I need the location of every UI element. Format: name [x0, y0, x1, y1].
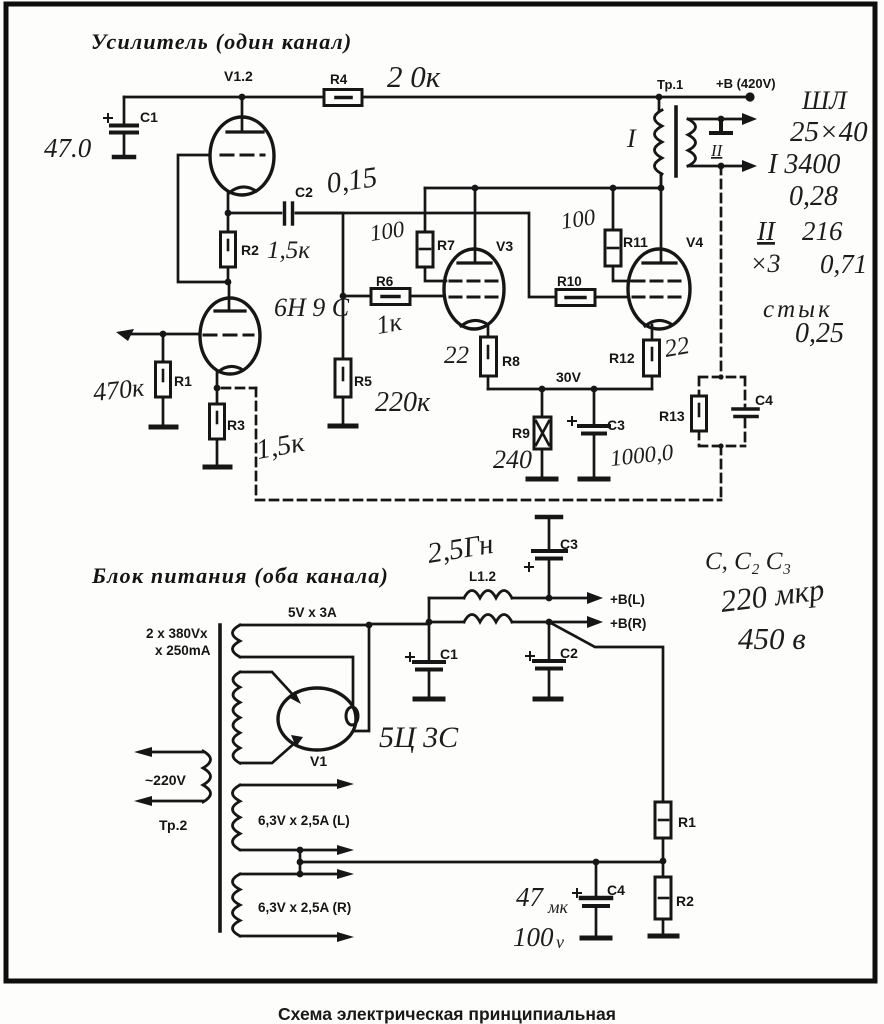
arrow secondary bottom — [742, 160, 757, 172]
ground secondary tap — [711, 119, 731, 133]
svg-text:6Н 9 С: 6Н 9 С — [274, 293, 350, 322]
svg-text:~220V: ~220V — [145, 772, 187, 788]
svg-text:I: I — [626, 124, 637, 153]
svg-text:47.0: 47.0 — [44, 133, 92, 163]
transformer Tp.1 — [626, 77, 696, 188]
tube V4 — [628, 174, 703, 329]
value 47mk 100v for C4 — [513, 882, 568, 952]
svg-text:+B(L): +B(L) — [610, 592, 645, 607]
winding 6.3V R — [233, 874, 352, 936]
resistor R1 — [156, 334, 193, 426]
node dashed top — [718, 374, 723, 379]
svg-text:2 0к: 2 0к — [387, 59, 441, 94]
capacitor C2 psu — [526, 622, 578, 697]
node heater tap top — [297, 847, 304, 854]
arrow 220V bottom — [134, 796, 152, 806]
wire secondary bottom — [688, 165, 744, 168]
node secondary top tap — [718, 116, 725, 123]
arrow +B(L) — [587, 592, 603, 604]
resistor R2 psu — [655, 861, 694, 935]
svg-text:I 3400: I 3400 — [767, 149, 840, 180]
wire secondary top — [688, 118, 744, 121]
svg-text:II 216: II 216 — [756, 216, 843, 246]
node heater tap lower — [297, 871, 304, 878]
capacitor C3 psu — [525, 517, 578, 598]
resistor R2 — [221, 213, 260, 282]
node V3 anode junction — [472, 185, 479, 192]
svg-text:1,5к: 1,5к — [267, 237, 310, 264]
anode arrow upper — [288, 691, 301, 704]
svg-text:R13: R13 — [659, 408, 685, 424]
resistor R7 — [417, 188, 455, 281]
arrow 220V top — [134, 747, 152, 757]
svg-text:R2: R2 — [241, 242, 259, 258]
dashed feedback from V1.1 cathode — [222, 387, 256, 390]
resistor R12 — [609, 325, 660, 389]
ground R9 — [528, 477, 556, 482]
arrow 6.3L top — [337, 779, 354, 789]
svg-text:II: II — [710, 141, 724, 160]
node dashed bottom — [718, 443, 723, 448]
tube V3 — [444, 188, 513, 329]
svg-text:470к: 470к — [92, 373, 147, 407]
node R1 junction — [160, 331, 167, 338]
ground R3 — [205, 465, 230, 470]
input wire with arrow — [128, 333, 200, 336]
svg-text:+B(R): +B(R) — [610, 616, 646, 631]
node transformer junction — [658, 185, 665, 192]
svg-text:Тр.1: Тр.1 — [657, 77, 683, 92]
ground R5 — [330, 424, 356, 429]
winding 5V — [233, 605, 370, 706]
capacitor C2 — [228, 184, 343, 224]
node C3 junction — [591, 386, 598, 393]
svg-text:R3: R3 — [227, 417, 245, 433]
svg-text:220к: 220к — [375, 387, 431, 418]
wire top B+ rail — [124, 96, 750, 99]
wire C2 to phase inverter — [296, 213, 556, 297]
svg-text:100: 100 — [559, 204, 597, 234]
wire filter riser — [428, 598, 431, 624]
svg-text:0,28: 0,28 — [789, 181, 838, 212]
resistor R9 trimmer — [512, 389, 551, 478]
svg-text:240: 240 — [493, 445, 532, 474]
arrow secondary top — [742, 113, 757, 125]
svg-text:V3: V3 — [496, 238, 513, 254]
wire bias reference — [300, 861, 663, 864]
svg-text:22: 22 — [444, 342, 469, 369]
svg-text:C3: C3 — [607, 417, 625, 433]
node +B terminal — [745, 92, 754, 101]
ground R2 psu — [650, 934, 677, 939]
capacitor C4 psu — [573, 862, 625, 936]
dashed wire from secondary — [720, 166, 723, 377]
wire V1.2 grid to R2 bottom — [178, 155, 226, 282]
svg-text:C1: C1 — [440, 646, 458, 662]
resistor R13 — [659, 396, 707, 431]
svg-text:30V: 30V — [556, 369, 582, 385]
svg-text:V4: V4 — [686, 234, 703, 250]
wire screen B+ rail — [425, 187, 661, 190]
svg-text:C4: C4 — [755, 392, 773, 408]
svg-text:5V x 3A: 5V x 3A — [288, 605, 337, 620]
svg-text:ШЛ: ШЛ — [801, 86, 848, 115]
svg-text:C2: C2 — [295, 184, 313, 200]
svg-text:C2: C2 — [560, 645, 578, 661]
wire filament to cathode node — [354, 625, 369, 731]
svg-text:R5: R5 — [354, 373, 372, 389]
svg-text:С, С₂ С₃: С, С₂ С₃ — [705, 548, 791, 575]
node divider junction — [660, 858, 667, 865]
choke L1.2 lower — [429, 615, 590, 623]
wire B+ main — [369, 623, 429, 626]
resistor R6 — [343, 274, 444, 305]
svg-text:C3: C3 — [560, 536, 578, 552]
resistor R8 — [481, 325, 521, 389]
svg-text:100: 100 — [368, 216, 406, 246]
svg-text:R11: R11 — [623, 234, 648, 250]
wire cathode 30V rail — [488, 388, 652, 391]
svg-text:2 x 380Vx: 2 x 380Vx — [146, 626, 208, 641]
svg-text:R1: R1 — [174, 373, 192, 389]
ground C3 — [580, 477, 608, 482]
svg-text:+B (420V): +B (420V) — [716, 76, 776, 91]
svg-text:V1.2: V1.2 — [224, 68, 253, 84]
ground C1 psu — [415, 697, 443, 702]
svg-text:C4: C4 — [607, 882, 625, 898]
svg-text:25×40: 25×40 — [790, 116, 868, 148]
ground R1 — [151, 425, 176, 430]
arrow 6.3R top — [337, 869, 354, 879]
svg-text:0,25: 0,25 — [795, 318, 844, 349]
svg-text:×3: ×3 — [750, 249, 781, 278]
winding HV 2x380V — [146, 626, 297, 763]
node heater tap mid — [297, 859, 304, 866]
wire V1.1 cathode — [216, 372, 219, 388]
node C4 junction — [593, 859, 600, 866]
ground C4 psu — [582, 936, 610, 941]
svg-text:0,71: 0,71 — [820, 249, 867, 279]
resistor R11 — [605, 188, 648, 281]
resistor R1 psu — [655, 802, 696, 861]
svg-text:R4: R4 — [330, 72, 348, 87]
svg-text:R2: R2 — [676, 893, 694, 909]
node secondary bottom — [718, 163, 725, 170]
node Tp.1 primary junction — [656, 94, 663, 101]
svg-text:R8: R8 — [502, 353, 520, 369]
node cathode/C2 junction — [225, 210, 232, 217]
svg-text:Блок питания (оба канала): Блок питания (оба канала) — [91, 563, 389, 588]
tube V1.2 — [210, 68, 274, 195]
node R6/R5 junction — [340, 293, 347, 300]
svg-text:R10: R10 — [557, 274, 582, 289]
svg-text:Схема электрическая принципиал: Схема электрическая принципиальная — [278, 1004, 616, 1024]
ground C2 psu — [535, 697, 561, 702]
resistor R10 — [556, 274, 628, 306]
node R9 junction — [539, 386, 546, 393]
wire C2 node down to R5/R6 — [342, 213, 345, 296]
tube V1 rectifier — [278, 688, 358, 769]
transformer Tp.2 core — [218, 625, 222, 931]
dashed wire bottom — [256, 499, 721, 502]
svg-text:22: 22 — [662, 332, 691, 363]
arrow 6.3L bottom — [337, 845, 354, 855]
arrow 6.3R bottom — [337, 932, 354, 942]
svg-text:6,3V x 2,5A (L): 6,3V x 2,5A (L) — [258, 813, 350, 828]
dashed box feedback network — [699, 377, 745, 446]
winding 220V primary — [140, 751, 211, 833]
node R2 bottom / V1.1 anode — [225, 279, 232, 286]
svg-text:R7: R7 — [437, 237, 455, 253]
dashed wire right riser — [720, 446, 723, 500]
handwritten cap values note — [705, 548, 826, 656]
choke L1.2 upper — [429, 569, 590, 598]
svg-text:6,3V x 2,5A (R): 6,3V x 2,5A (R) — [258, 900, 351, 915]
anode arrow lower — [291, 735, 303, 747]
node choke output junction lower — [546, 619, 553, 626]
svg-text:100: 100 — [513, 922, 554, 952]
capacitor C3 — [568, 389, 625, 478]
svg-text:L1.2: L1.2 — [469, 569, 496, 584]
node R11 junction — [610, 185, 617, 192]
svg-text:R12: R12 — [609, 350, 635, 366]
svg-text:Тр.2: Тр.2 — [159, 817, 187, 833]
winding 6.3V L — [233, 785, 350, 850]
node V1.1 cathode — [214, 385, 221, 392]
tube V1.1 — [200, 282, 260, 374]
resistor R3 — [210, 388, 246, 466]
svg-text:Усилитель (один канал): Усилитель (один канал) — [91, 29, 352, 54]
handwritten margin notes — [750, 86, 868, 349]
wire heater tap vertical — [299, 850, 302, 874]
svg-text:450 в: 450 в — [738, 621, 806, 656]
svg-text:5Ц 3С: 5Ц 3С — [379, 721, 459, 754]
wire B(R) feed to divider — [549, 622, 663, 802]
wire V1.2 cathode down — [227, 192, 230, 213]
node rectifier output — [366, 622, 373, 629]
dashed wire down left — [255, 388, 258, 500]
svg-text:R1: R1 — [678, 814, 696, 830]
svg-text:R6: R6 — [376, 274, 394, 289]
svg-text:v: v — [556, 932, 564, 952]
svg-text:x 250mA: x 250mA — [155, 643, 211, 658]
node V1.2 anode junction — [239, 94, 246, 101]
capacitor C1 — [104, 97, 158, 157]
input arrow terminal — [116, 329, 134, 341]
svg-text:мк: мк — [547, 897, 568, 917]
svg-text:47: 47 — [516, 882, 545, 912]
svg-text:V1: V1 — [310, 753, 327, 769]
svg-text:C1: C1 — [140, 109, 158, 125]
capacitor C4 — [733, 392, 773, 417]
resistor R4 — [324, 72, 362, 106]
node B+ filter input — [426, 619, 433, 626]
capacitor C1 psu — [406, 622, 458, 697]
resistor R5 — [335, 296, 372, 425]
svg-text:R9: R9 — [512, 425, 530, 441]
arrow +B(R) — [587, 616, 603, 628]
node choke output junction upper — [546, 595, 553, 602]
